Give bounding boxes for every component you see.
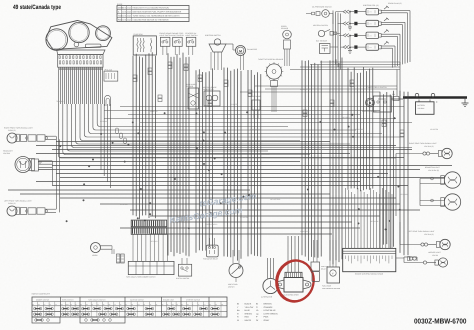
- svg-text:GENERATOR: GENERATOR: [203, 88, 214, 91]
- svg-text:LIGHT BLUE: LIGHT BLUE: [264, 309, 277, 312]
- svg-text:LIGHT SWITCH: LIGHT SWITCH: [185, 34, 198, 37]
- svg-text:NEUTRAL SWITCH: NEUTRAL SWITCH: [313, 24, 329, 27]
- svg-text:HORN: HORN: [92, 254, 98, 257]
- svg-text:WHITE: WHITE: [245, 319, 252, 322]
- svg-text:Gr: Gr: [256, 319, 259, 322]
- svg-text:10 A: 10 A: [122, 19, 127, 22]
- svg-text:0030Z-MBW-6700: 0030Z-MBW-6700: [414, 316, 467, 325]
- svg-text:GRAY: GRAY: [264, 319, 270, 322]
- svg-text:RIGHT REAR TURN SIGNAL LIGHT: RIGHT REAR TURN SIGNAL LIGHT: [409, 142, 437, 145]
- svg-text:IGNITION COIL (S): IGNITION COIL (S): [363, 4, 379, 7]
- svg-text:HEADLIGHT HI-LO HAZARD POSI: HEADLIGHT HI-LO HAZARD POSITION: [133, 7, 170, 10]
- svg-text:RIGHT FRONT TURN SIGNAL LIGHT: RIGHT FRONT TURN SIGNAL LIGHT: [4, 127, 33, 130]
- svg-text:1P BLACK: 1P BLACK: [104, 68, 113, 71]
- svg-text:ECT SENSOR: ECT SENSOR: [316, 40, 328, 43]
- svg-text:SENSOR: SENSOR: [186, 85, 194, 88]
- svg-text:LEFT FRONT TURN SIGNAL LIGHT: LEFT FRONT TURN SIGNAL LIGHT: [4, 200, 32, 203]
- svg-text:12V 21W (2): 12V 21W (2): [424, 233, 434, 236]
- svg-text:BATTERY: BATTERY: [418, 104, 427, 107]
- svg-text:ORANGE: ORANGE: [264, 306, 274, 309]
- svg-text:ALTERNATOR: ALTERNATOR: [261, 296, 273, 299]
- svg-text:12V 21W (2): 12V 21W (2): [424, 145, 434, 148]
- svg-text:YELLOW: YELLOW: [245, 306, 254, 309]
- svg-text:PINK: PINK: [264, 316, 269, 319]
- svg-text:12V 5W: 12V 5W: [432, 254, 438, 257]
- svg-text:M: M: [239, 49, 242, 53]
- svg-text:12V 55W: 12V 55W: [3, 152, 10, 155]
- svg-text:THROTTLE POSITION SENSOR: THROTTLE POSITION SENSOR: [258, 58, 284, 61]
- svg-text:LIGHT GREEN: LIGHT GREEN: [264, 312, 279, 315]
- svg-text:IGNITION SWITCH: IGNITION SWITCH: [205, 34, 221, 37]
- svg-text:RED: RED: [245, 316, 250, 319]
- svg-text:CLUTCH DIODE: CLUTCH DIODE: [248, 95, 262, 98]
- svg-text:BRAKE/TAILLIGHT: BRAKE/TAILLIGHT: [425, 166, 440, 169]
- svg-text:FUSE BOX: FUSE BOX: [134, 33, 144, 36]
- svg-text:LEFT REAR TURN SIGNAL LIGHT: LEFT REAR TURN SIGNAL LIGHT: [408, 230, 434, 233]
- svg-text:12V-8AH: 12V-8AH: [418, 107, 426, 110]
- svg-text:SPARK PLUG (S): SPARK PLUG (S): [388, 2, 402, 5]
- svg-text:LIGHT SWITCH: LIGHT SWITCH: [172, 34, 185, 37]
- svg-text:W: W: [237, 319, 239, 322]
- svg-text:30 A: 30 A: [122, 7, 127, 10]
- svg-text:BROWN: BROWN: [264, 303, 272, 306]
- svg-text:BLACK: BLACK: [245, 303, 252, 306]
- svg-text:21/5W (2): 21/5W (2): [8, 202, 16, 205]
- svg-text:OIL PRESSURE SWITCH: OIL PRESSURE SWITCH: [312, 6, 332, 9]
- svg-text:IGNITION STARTER FUEL PUMP F: IGNITION STARTER FUEL PUMP FI SPEEDOMETE…: [133, 11, 182, 14]
- svg-text:+: +: [436, 100, 438, 104]
- svg-text:10 A: 10 A: [122, 15, 127, 18]
- svg-text:STARTER RELAY SWITCH: STARTER RELAY SWITCH: [366, 86, 387, 89]
- svg-text:ENGINE CONTROL MODULE (ECM): ENGINE CONTROL MODULE (ECM): [355, 273, 384, 276]
- svg-text:COOLING FAN MOTOR ECT RESERV: COOLING FAN MOTOR ECT RESERVE: [133, 19, 170, 22]
- svg-text:12V 21/5W (2): 12V 21/5W (2): [428, 169, 439, 172]
- svg-text:BLUE: BLUE: [245, 309, 251, 312]
- svg-text:Br: Br: [256, 303, 258, 306]
- svg-text:TURN SIGNAL TAIL HORN BRAKE: TURN SIGNAL TAIL HORN BRAKE METER LIGHTS: [133, 15, 181, 18]
- svg-text:LIGHT SWITCH: LIGHT SWITCH: [159, 34, 172, 37]
- svg-text:LICENSE LIGHT: LICENSE LIGHT: [428, 251, 441, 254]
- svg-text:FUSE: FUSE: [117, 3, 123, 6]
- svg-text:49 state/Canada type: 49 state/Canada type: [13, 4, 61, 11]
- svg-text:SWITCH CONTINUITY: SWITCH CONTINUITY: [32, 293, 51, 296]
- svg-text:SENSOR: SENSOR: [281, 27, 289, 30]
- svg-text:21/5W (2): 21/5W (2): [8, 129, 16, 132]
- svg-text:GREEN: GREEN: [245, 312, 253, 315]
- svg-text:FAN MOTOR: FAN MOTOR: [247, 48, 258, 51]
- svg-text:10 A: 10 A: [122, 11, 127, 14]
